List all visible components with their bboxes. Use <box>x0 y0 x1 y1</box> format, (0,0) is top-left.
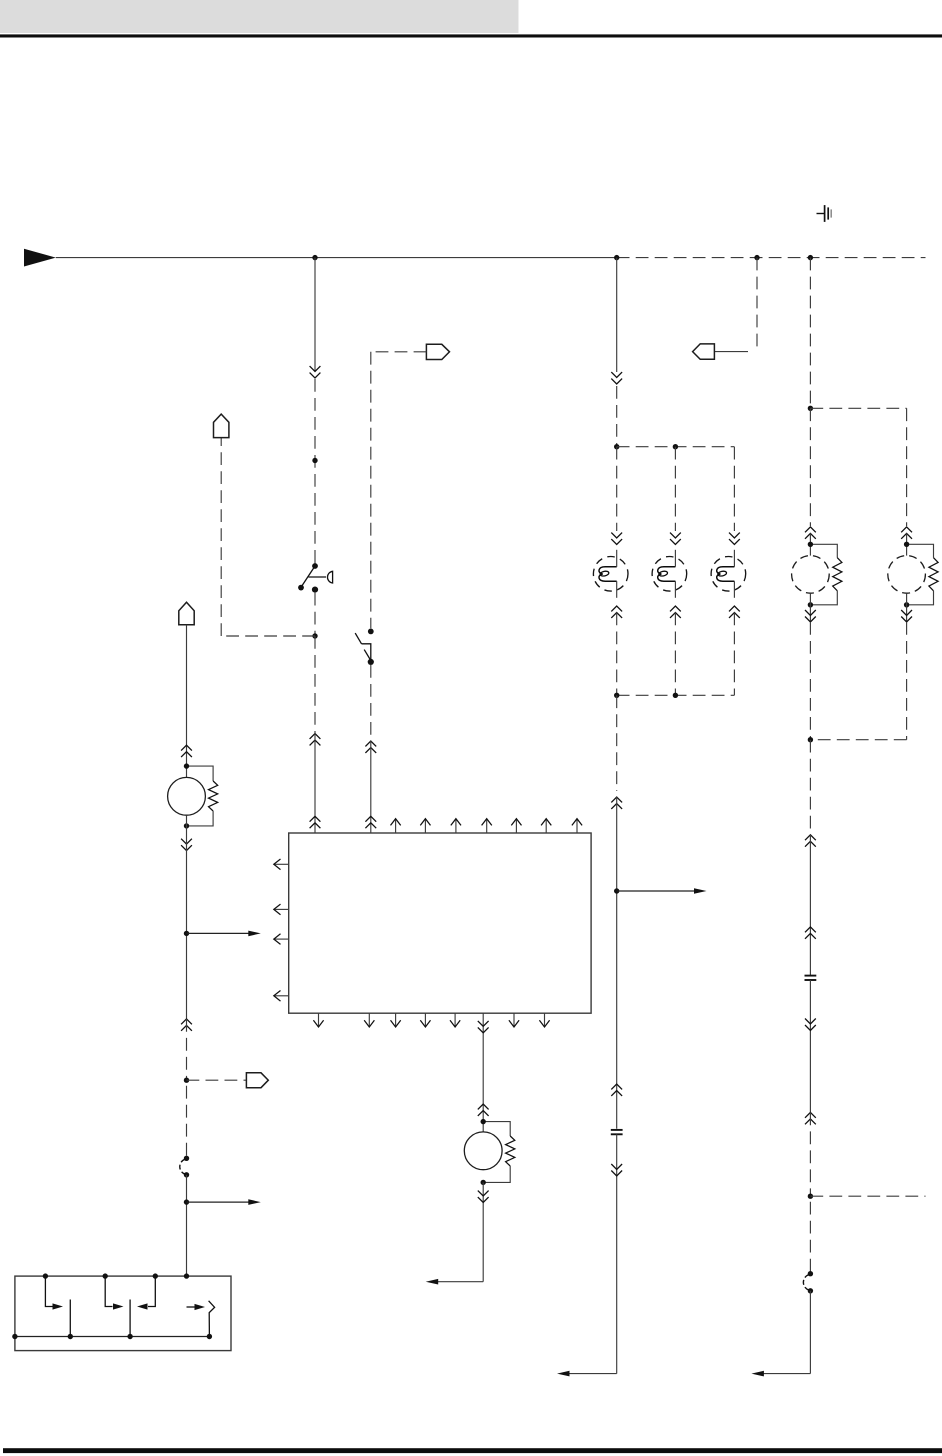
pin arrow top <box>395 820 397 834</box>
bulb lamp <box>652 557 687 592</box>
pin arrow left <box>275 908 289 910</box>
bulb filament <box>599 567 617 581</box>
junction node <box>673 444 678 449</box>
harness chevrons <box>611 533 622 545</box>
inline connector <box>808 1271 813 1276</box>
harness chevrons <box>181 745 192 757</box>
terminal dot <box>808 602 813 607</box>
harness chevrons <box>805 610 816 622</box>
node <box>614 444 619 449</box>
wire <box>617 694 735 696</box>
harness chevrons <box>611 1084 622 1096</box>
wire <box>370 741 372 833</box>
harness chevrons <box>365 741 376 753</box>
relay contact 4 <box>187 1306 196 1308</box>
node <box>312 633 317 638</box>
bulb lamp <box>593 557 628 592</box>
terminal dot <box>481 1119 486 1124</box>
connector plug left <box>693 344 715 359</box>
harness chevrons <box>611 372 622 384</box>
harness chevrons <box>901 527 912 539</box>
pin arrow left <box>275 863 289 865</box>
harness chevrons <box>805 835 816 847</box>
wire <box>186 1080 188 1155</box>
wire <box>809 1291 811 1374</box>
harness chevrons <box>670 606 681 618</box>
inline connector bars <box>611 1129 623 1131</box>
node <box>614 693 619 698</box>
wire <box>371 351 427 353</box>
battery feed arrow <box>24 249 56 267</box>
harness chevrons <box>611 606 622 618</box>
harness chevrons <box>670 533 681 545</box>
harness chevrons <box>729 606 740 618</box>
pin arrow top <box>486 820 488 834</box>
wire <box>314 258 316 371</box>
harness chevrons <box>365 816 376 828</box>
wire <box>314 379 316 554</box>
motor body <box>888 556 926 594</box>
wire <box>809 980 811 1112</box>
wire <box>616 797 618 1129</box>
connector plug up <box>214 414 229 438</box>
wire <box>370 665 372 741</box>
pin arrow bottom <box>368 1013 370 1026</box>
node <box>207 1334 212 1339</box>
wire <box>314 593 316 636</box>
harness chevrons <box>478 1104 489 1116</box>
relay contact 3 <box>148 1276 155 1306</box>
wire <box>809 593 811 622</box>
wire <box>906 622 908 740</box>
node <box>153 1273 158 1278</box>
wire <box>809 622 811 740</box>
junction node <box>312 255 317 260</box>
pin arrow top <box>515 820 517 834</box>
wire <box>810 739 906 741</box>
wire <box>186 1019 188 1080</box>
signal arrow <box>617 890 695 892</box>
pin arrow top <box>424 820 426 834</box>
wire <box>733 613 735 696</box>
wire <box>906 533 908 555</box>
signal arrow <box>187 1201 249 1203</box>
junction node <box>614 888 619 893</box>
wire <box>370 352 372 629</box>
wire <box>186 625 188 778</box>
wire: main bus dashed <box>617 257 926 259</box>
relay box <box>15 1276 231 1351</box>
harness chevrons <box>729 533 740 545</box>
chassis ground symbol <box>817 205 832 222</box>
wire <box>616 695 618 791</box>
wire <box>482 1013 484 1132</box>
wire <box>809 1196 811 1271</box>
motor parallel resistor bracket <box>810 544 837 557</box>
wire <box>809 1112 811 1196</box>
pin arrow bottom <box>395 1013 397 1026</box>
relay contact 2 <box>105 1276 112 1306</box>
node <box>808 737 813 742</box>
pin arrow bottom <box>513 1013 515 1026</box>
junction node <box>754 255 759 260</box>
pin arrow top <box>455 820 457 834</box>
bulb filament <box>717 567 735 581</box>
node <box>312 458 317 463</box>
harness chevrons <box>611 797 622 809</box>
pin arrow bottom <box>424 1013 426 1026</box>
wire <box>714 351 748 353</box>
node <box>103 1273 108 1278</box>
wire <box>187 1079 247 1081</box>
pin arrow left <box>275 938 289 940</box>
connector plug up <box>179 602 194 625</box>
node <box>68 1334 73 1339</box>
terminal dot <box>904 542 909 547</box>
junction node <box>808 255 813 260</box>
junction node <box>614 255 619 260</box>
wire to ground <box>569 1373 617 1375</box>
node <box>127 1334 132 1339</box>
wire <box>756 258 758 352</box>
wire <box>809 533 811 555</box>
switch S1 pushbutton <box>302 566 333 587</box>
wire <box>617 446 735 448</box>
harness chevrons <box>478 1191 489 1203</box>
bottom rule <box>3 1448 942 1453</box>
switch S2 <box>355 633 371 661</box>
wire <box>809 408 811 526</box>
terminal dot <box>481 1180 486 1185</box>
inline connector <box>184 1156 189 1161</box>
wire <box>314 734 316 834</box>
node <box>184 1078 189 1083</box>
node <box>184 1273 189 1278</box>
harness chevrons <box>805 527 816 539</box>
connector plug right <box>426 344 449 359</box>
harness chevrons <box>310 734 321 746</box>
harness chevrons <box>478 1021 489 1033</box>
wire <box>674 550 676 567</box>
pin arrow bottom <box>544 1013 546 1026</box>
wire <box>616 258 618 372</box>
contact bar <box>129 1300 131 1337</box>
harness chevrons <box>181 839 192 851</box>
harness chevrons <box>805 927 816 939</box>
pin arrow bottom <box>454 1013 456 1026</box>
wire <box>616 386 618 447</box>
harness chevrons <box>181 1019 192 1031</box>
relay common rail <box>15 1336 210 1338</box>
node <box>808 1194 813 1199</box>
relay contact 1 <box>45 1276 52 1306</box>
harness chevrons <box>611 1164 622 1176</box>
harness chevrons <box>805 1019 816 1031</box>
wire <box>616 550 618 567</box>
wire <box>810 407 906 409</box>
wire <box>186 1175 188 1276</box>
wire <box>674 447 676 531</box>
wire <box>314 636 316 733</box>
top rule <box>0 34 942 37</box>
header bar <box>0 0 519 33</box>
wire <box>616 613 618 696</box>
control unit U1 <box>289 833 591 1013</box>
terminal dot <box>184 823 189 828</box>
wire <box>314 554 316 564</box>
wire <box>906 408 908 526</box>
wire <box>733 550 735 567</box>
junction node <box>184 931 189 936</box>
wire to ground <box>438 1281 484 1283</box>
wire <box>674 613 676 696</box>
bulb lamp <box>711 557 746 592</box>
inline connector bars <box>805 975 817 977</box>
motor parallel resistor bracket <box>483 1122 510 1136</box>
harness chevrons <box>310 366 321 378</box>
signal arrow <box>187 932 249 934</box>
connector plug right <box>246 1073 268 1088</box>
wire <box>616 447 618 531</box>
contact bar <box>69 1300 71 1337</box>
wire <box>221 635 315 637</box>
pin arrow left <box>275 995 289 997</box>
motor body <box>792 556 830 594</box>
bulb filament <box>658 567 676 581</box>
motor parallel resistor bracket <box>187 766 214 781</box>
wire <box>809 835 811 976</box>
pin arrow top <box>576 820 578 834</box>
terminal dot <box>808 542 813 547</box>
wire <box>809 258 811 409</box>
wire <box>906 593 908 622</box>
wire <box>733 447 735 531</box>
motor parallel resistor bracket <box>907 544 934 557</box>
wire to ground <box>763 1373 810 1375</box>
wire: main bus solid <box>56 257 617 259</box>
pin arrow bottom <box>318 1013 320 1026</box>
terminal dot <box>184 763 189 768</box>
wire <box>810 1195 925 1197</box>
motor body <box>168 777 206 815</box>
pin arrow top <box>545 820 547 834</box>
harness chevrons <box>901 610 912 622</box>
wire <box>186 815 188 1019</box>
wire <box>220 438 222 636</box>
harness chevrons <box>805 1112 816 1124</box>
harness chevrons <box>310 816 321 828</box>
wire <box>482 1182 484 1281</box>
wire <box>616 1134 618 1373</box>
node <box>808 406 813 411</box>
motor body <box>464 1132 502 1170</box>
terminal dot <box>904 602 909 607</box>
junction node <box>673 693 678 698</box>
node <box>43 1273 48 1278</box>
node <box>12 1334 17 1339</box>
wire <box>809 740 811 835</box>
junction node <box>184 1199 189 1204</box>
